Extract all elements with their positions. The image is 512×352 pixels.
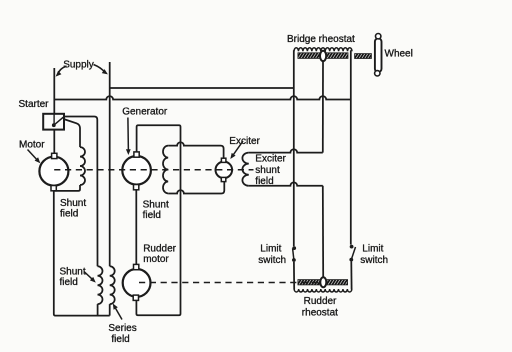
rudder motor shunt field coil [98, 266, 103, 304]
svg-text:Rudder: Rudder [143, 243, 176, 254]
svg-text:Series: Series [108, 323, 136, 334]
svg-text:Shunt: Shunt [143, 199, 169, 210]
wire: feeder from supply 1 to bridge rheostat right leg (y=99.5, hops over crossings) [54, 96, 351, 99]
wire: motor shunt field return to armature [54, 185, 80, 191]
wire: starter to lower shunt field (via top-right corner) [64, 117, 98, 267]
wire: starter blade to motor shunt field [64, 119, 80, 147]
rudder motor armature circle [123, 269, 151, 297]
wire: generator field top to exciter top terminal (hops armature wire) [168, 142, 223, 158]
svg-text:Limit: Limit [362, 244, 383, 255]
wire: DC supply line 1 (left vertical) [53, 68, 55, 154]
wire: shunt coil tail to bottom rail [97, 304, 99, 316]
wire: left leg to rudder rheostat [293, 262, 295, 290]
rudder rheostat hatched bar right [327, 280, 348, 285]
svg-text:Supply: Supply [63, 60, 94, 71]
svg-text:Starter: Starter [19, 99, 50, 110]
starter box [43, 114, 64, 130]
wheel bottom knob [375, 71, 380, 76]
bridge rheostat hatched bar right [326, 53, 348, 59]
rudder rheostat hatched bar left [298, 280, 320, 285]
wire: generator bottom terminal to rudder motor top [135, 190, 137, 265]
exciter bottom brush terminal [221, 177, 226, 181]
mechanical link rudder motor to rudder rheostat (dashed) [139, 282, 320, 284]
arrow: generator pointer [127, 118, 129, 152]
wire: DC supply line 2 (right vertical) [109, 62, 111, 316]
svg-text:field: field [60, 208, 78, 219]
wire: supply lead into starter [53, 114, 55, 124]
wire: bridge left leg [293, 50, 295, 246]
wheel top knob [376, 34, 381, 39]
left limit switch bottom contact [292, 258, 296, 262]
arrow: series field pointer [115, 307, 123, 320]
wire: rudder wiper lead up to exciter field bottom [322, 186, 324, 277]
arrow: supply pointer right [94, 65, 106, 73]
exciter top brush terminal [221, 158, 226, 162]
wire: bridge right leg [350, 50, 352, 244]
arrow: exciter pointer [232, 141, 243, 156]
svg-text:field: field [255, 176, 273, 187]
wheel column (capsule) [375, 38, 382, 72]
svg-text:switch: switch [360, 255, 388, 266]
generator G armature circle [122, 156, 151, 185]
motor top brush terminal [52, 153, 57, 158]
left limit switch blade [293, 248, 294, 260]
rudder motor bottom brush terminal [133, 295, 138, 300]
wire: feeder from supply 2 to bridge rheostat left leg (y=88) [110, 87, 294, 89]
arrow: motor pointer [28, 150, 38, 161]
generator shunt field coil [163, 146, 168, 194]
svg-text:Exciter: Exciter [229, 136, 260, 147]
wire: exciter field top to bridge wiper (hops left leg) [249, 149, 323, 152]
motor bottom brush terminal [51, 186, 56, 191]
svg-text:Rudder: Rudder [304, 296, 337, 307]
bridge rheostat hatched bar left [298, 53, 320, 59]
svg-text:field: field [111, 334, 129, 345]
motor M armature circle [39, 157, 68, 186]
wire: generator armature loop to rudder motor (up-over-down) [136, 125, 180, 315]
exciter shunt field coil [242, 153, 248, 186]
generator bottom brush terminal [134, 185, 139, 190]
svg-text:Shunt: Shunt [60, 267, 86, 278]
rudder rheostat winding (scalloped) [294, 289, 352, 292]
svg-text:Limit: Limit [260, 244, 281, 255]
svg-text:Shunt: Shunt [60, 198, 86, 209]
right limit switch blade [351, 247, 355, 260]
starter contact dot [52, 123, 56, 127]
svg-text:motor: motor [143, 254, 169, 265]
rudder motor top brush terminal [134, 264, 139, 269]
starter switch blade [54, 117, 64, 125]
arrow: shunt field pointer [84, 272, 93, 281]
bridge rheostat wiper [320, 51, 326, 61]
svg-text:Exciter: Exciter [255, 153, 286, 164]
steering shaft hatched link [355, 54, 372, 59]
wire: bridge wiper lead down to exciter field top [322, 61, 324, 153]
svg-text:field: field [143, 210, 161, 221]
motor shunt field coil [80, 147, 85, 185]
svg-text:field: field [60, 277, 78, 288]
generator top brush terminal [134, 152, 139, 157]
svg-text:Motor: Motor [19, 140, 45, 151]
wire: exciter field bottom to rudder wiper (hops left leg) [249, 182, 323, 185]
svg-text:shunt: shunt [255, 165, 280, 176]
svg-text:Bridge rheostat: Bridge rheostat [287, 34, 355, 45]
left limit switch top contact [292, 246, 296, 250]
wire: right leg to rudder rheostat [350, 261, 352, 289]
svg-text:rheostat: rheostat [302, 307, 338, 318]
rudder rheostat wiper [320, 277, 326, 287]
series field coil [110, 266, 115, 304]
wire: generator field bottom to exciter bottom terminal (hops armature wire) [168, 182, 224, 194]
exciter armature circle [216, 162, 233, 179]
svg-text:switch: switch [258, 255, 286, 266]
right limit switch top contact [350, 245, 354, 249]
mechanical shaft line (motor-generator-exciter, dashed) [54, 169, 253, 171]
wire: supply line 1 lower run from motor to bottom rail [54, 191, 110, 316]
right limit switch bottom contact [349, 258, 353, 262]
arrow: supply pointer left [58, 66, 66, 74]
svg-text:Generator: Generator [122, 107, 168, 118]
svg-text:Wheel: Wheel [385, 49, 413, 60]
bridge rheostat winding (scalloped) [294, 48, 352, 52]
